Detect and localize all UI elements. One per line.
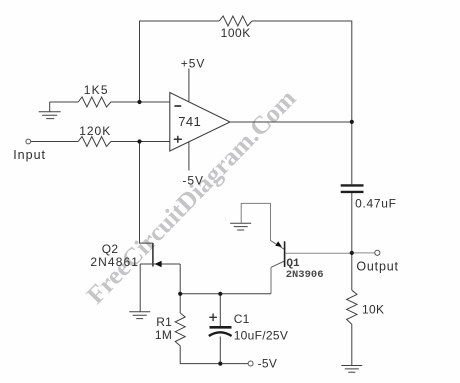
- Q1 emitter wire to ground loop: [241, 203, 270, 240]
- svg-text:1M: 1M: [155, 328, 172, 342]
- ground G1: [39, 112, 61, 119]
- svg-text:100K: 100K: [221, 26, 251, 40]
- junction node C1 bottom: [218, 362, 222, 366]
- C1 plus sign: [209, 314, 217, 322]
- wire input terminal to 120K: [31, 141, 78, 143]
- wire R1 top: [179, 294, 181, 313]
- ground G2: [230, 223, 251, 230]
- svg-text:120K: 120K: [79, 124, 111, 138]
- wire capacitor to output node: [351, 193, 353, 290]
- wire 10K to ground: [351, 324, 353, 365]
- junction node C1 top: [218, 292, 222, 296]
- svg-text:2N3906: 2N3906: [286, 269, 324, 281]
- capacitor C1 negative curved plate: [209, 332, 232, 336]
- op-amp minus sign: [174, 105, 181, 107]
- svg-text:Input: Input: [13, 148, 46, 162]
- svg-text:10uF/25V: 10uF/25V: [234, 329, 288, 343]
- svg-text:0.47uF: 0.47uF: [355, 196, 397, 210]
- junction node R1 top: [178, 292, 182, 296]
- svg-text:Output: Output: [356, 260, 398, 274]
- wire C1 bottom: [219, 337, 221, 364]
- capacitor 0.47uF: [341, 185, 364, 192]
- Q1 collector vertical: [270, 267, 272, 294]
- junction node op-amp output: [350, 120, 354, 124]
- capacitor C1 positive plate: [210, 326, 232, 329]
- wire 1K5 to op-amp inverting input: [111, 101, 170, 103]
- wire op-amp to -5V supply: [188, 141, 190, 170]
- svg-text:1K5: 1K5: [84, 83, 109, 97]
- Q2 gate wire down to R1 node: [179, 264, 181, 294]
- Q1 emitter diagonal: [271, 241, 285, 250]
- wire top feedback right segment: [252, 21, 352, 184]
- svg-text:Q2: Q2: [102, 242, 119, 256]
- wire R1 bottom: [180, 346, 248, 364]
- Q1 base bar: [284, 241, 286, 267]
- ground G4: [341, 366, 362, 373]
- Q1 base wire to output node: [285, 252, 351, 254]
- svg-text:2N4861: 2N4861: [90, 255, 139, 269]
- Q2 gate-source horizontal wire: [140, 263, 180, 265]
- svg-text:C1: C1: [234, 312, 250, 326]
- output terminal circle: [375, 250, 380, 255]
- svg-text:10K: 10K: [362, 303, 384, 317]
- wire op-amp output: [230, 121, 352, 123]
- resistor R1 zigzag: [175, 313, 185, 346]
- junction node output terminal: [350, 251, 354, 255]
- svg-text:-5V: -5V: [258, 357, 278, 371]
- input terminal circle: [26, 139, 31, 144]
- ground G1 stem: [49, 102, 51, 112]
- svg-text:R1: R1: [156, 315, 172, 329]
- resistor 10K zigzag: [347, 290, 357, 324]
- junction node plus input: [137, 139, 141, 143]
- op-amp plus sign: [174, 136, 182, 143]
- Q1 emitter arrow: [275, 241, 282, 247]
- svg-text:+5V: +5V: [181, 56, 206, 70]
- svg-text:-5V: -5V: [182, 173, 204, 187]
- wire non-inverting node down to Q2 drain: [140, 142, 153, 244]
- svg-text:741: 741: [178, 114, 201, 129]
- junction node minus input: [137, 100, 141, 104]
- Q2 source drop to ground: [139, 264, 141, 312]
- wire ground to 1K5: [50, 101, 78, 103]
- resistor R 100K zigzag: [219, 16, 252, 26]
- resistor 120K: [78, 137, 111, 147]
- wire output node to terminal: [352, 252, 375, 254]
- resistor 1K5: [78, 97, 111, 107]
- wire C1 top: [219, 294, 221, 326]
- wire top feedback left segment: [140, 21, 220, 102]
- ground G3: [129, 312, 150, 319]
- op-amp U1 triangle: [170, 93, 230, 152]
- Q2 gate arrow: [155, 261, 162, 268]
- wire 120K to op-amp non-inverting input: [111, 141, 170, 143]
- wire node row R1 C1 to Q1 collector: [180, 293, 271, 295]
- wire +5V supply to op-amp: [188, 69, 190, 103]
- -5V terminal circle: [248, 361, 253, 366]
- transistor Q2 channel bar: [152, 243, 154, 266]
- Q1 collector diagonal: [271, 261, 285, 267]
